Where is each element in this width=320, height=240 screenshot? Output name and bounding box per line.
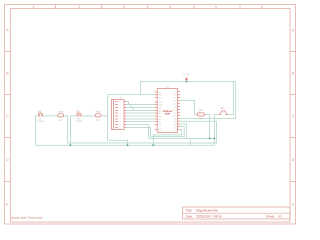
- svg-text:6: 6: [120, 115, 121, 118]
- frame row labels left: [6, 29, 9, 207]
- svg-text:D: D: [292, 158, 295, 162]
- junction dot 5: [209, 137, 211, 139]
- svg-text:Magnificent Mix: Magnificent Mix: [196, 209, 219, 213]
- wire connector to IC row6: [126, 118, 155, 120]
- power flag U1_5V: [183, 73, 190, 81]
- connector J1 pin numbers: [119, 101, 121, 130]
- svg-text:4: 4: [169, 5, 171, 9]
- svg-text:PUSH: PUSH: [37, 120, 44, 123]
- svg-text:D: D: [6, 158, 9, 162]
- svg-text:9: 9: [120, 124, 121, 127]
- svg-text:5: 5: [215, 5, 217, 9]
- svg-text:Date:: Date:: [186, 215, 194, 219]
- wire connector pin1 jog: [126, 102, 155, 105]
- svg-text:10: 10: [119, 127, 121, 130]
- junction dot 2: [127, 144, 129, 146]
- junction dot 1: [69, 144, 71, 146]
- wire connector to IC row7: [126, 121, 155, 123]
- svg-text:BZ1: BZ1: [221, 107, 226, 110]
- resistor R1: [58, 110, 64, 122]
- svg-text:2: 2: [120, 104, 121, 107]
- svg-text:Title:: Title:: [186, 209, 193, 213]
- wire bundle L1: [153, 130, 182, 146]
- frame row labels right: [292, 29, 295, 207]
- connector J1: [112, 96, 125, 129]
- wire connector to IC row5: [126, 115, 155, 117]
- wire 5V branch to connector: [108, 94, 141, 96]
- wire R3 feed: [180, 101, 197, 115]
- wire XTAL long: [180, 82, 236, 119]
- wire connector left drop: [108, 95, 128, 146]
- junction dot 4: [186, 81, 188, 83]
- wire rail mid: [68, 121, 217, 143]
- wire ground rail: [36, 144, 215, 146]
- wire gnd tie: [189, 138, 191, 145]
- piezo speaker BZ1: [219, 107, 228, 114]
- junction dot 6: [213, 137, 215, 139]
- svg-text:ATMEGA: ATMEGA: [163, 110, 173, 113]
- svg-text:2029/12/9 7:43:06: 2029/12/9 7:43:06: [196, 215, 222, 219]
- svg-text:328P: 328P: [165, 113, 171, 116]
- svg-text:C: C: [292, 115, 295, 119]
- wire speaker right leg to 5V: [227, 82, 234, 115]
- svg-text:1/1: 1/1: [278, 215, 283, 219]
- border frame inner: [11, 9, 291, 223]
- frame row ticks left: [5, 52, 11, 182]
- svg-text:PUSH: PUSH: [76, 120, 83, 123]
- IC U1 right pin labels: [173, 91, 176, 132]
- svg-text:1: 1: [33, 5, 35, 9]
- wire rail upper: [126, 125, 214, 139]
- resistor R3: [197, 109, 205, 121]
- svg-text:C: C: [6, 115, 9, 119]
- wire button S1 left leg: [36, 116, 39, 145]
- connector J1 pins: [115, 102, 126, 128]
- wire S2 to R2: [82, 115, 96, 117]
- IC U1 left pin labels: [158, 91, 163, 132]
- wire connector to IC row4: [126, 112, 155, 114]
- pushbutton S2: [76, 111, 83, 124]
- date text: [186, 215, 222, 219]
- wire speaker left leg: [214, 115, 219, 146]
- wire connector to IC row3b: [126, 110, 134, 112]
- frame column ticks top: [56, 5, 240, 9]
- wire S1 to R1: [43, 115, 58, 117]
- wire connector pin2 jog: [126, 105, 155, 108]
- title block: [183, 207, 291, 219]
- svg-text:3: 3: [120, 107, 121, 110]
- pushbutton S1: [37, 111, 44, 124]
- svg-text:8: 8: [120, 121, 121, 124]
- wire connector pin3 jog: [126, 108, 155, 111]
- IC U1 left pins: [155, 92, 158, 130]
- wire bundle L2: [126, 127, 184, 137]
- svg-text:1: 1: [120, 101, 121, 104]
- svg-text:2: 2: [78, 5, 80, 9]
- frame column labels top: [33, 5, 264, 9]
- svg-text:6: 6: [261, 5, 263, 9]
- svg-text:10kΩ: 10kΩ: [96, 110, 102, 113]
- svg-text:U1_5V: U1_5V: [183, 73, 190, 76]
- wire R3 out drop: [205, 115, 210, 139]
- wire button S2 left leg: [70, 116, 76, 145]
- svg-text:5: 5: [120, 112, 121, 115]
- wire pin D riser: [180, 124, 187, 138]
- svg-text:Made with Tinkercad: Made with Tinkercad: [11, 216, 42, 220]
- title text: [186, 209, 219, 213]
- svg-text:1kΩ: 1kΩ: [199, 109, 203, 112]
- wire R2 right leg: [102, 115, 108, 117]
- IC U1 ATMEGA328: [157, 85, 177, 132]
- watermark Made with Tinkercad: [11, 216, 42, 220]
- sheet text: [266, 215, 282, 219]
- frame row ticks right: [290, 52, 296, 182]
- svg-text:Sheet:: Sheet:: [266, 215, 275, 219]
- IC U1 right pins: [178, 92, 181, 130]
- svg-text:10kΩ: 10kΩ: [58, 110, 64, 113]
- svg-text:3: 3: [123, 5, 125, 9]
- junction dot 3: [152, 144, 154, 146]
- wire top rail left drop to VCC: [141, 82, 155, 95]
- wire R1 right leg: [64, 116, 68, 143]
- resistor R2: [95, 110, 101, 122]
- wire 5V top rail: [141, 81, 236, 83]
